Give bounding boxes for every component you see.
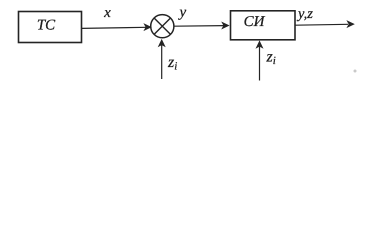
svg-text:СИ: СИ — [244, 14, 266, 30]
svg-text:x: x — [103, 5, 111, 21]
svg-text:y: y — [177, 5, 186, 21]
svg-text:y,z: y,z — [296, 6, 313, 22]
svg-text:ТС: ТС — [37, 18, 56, 34]
